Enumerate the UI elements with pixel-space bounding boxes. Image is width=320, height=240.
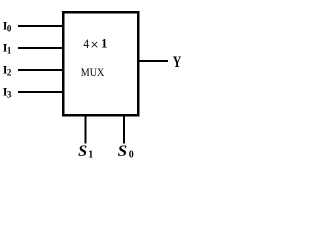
svg-text:MUX: MUX <box>81 65 105 79</box>
svg-text:×: × <box>90 37 98 53</box>
label 4 x 1 <box>83 36 107 53</box>
wire input I1 <box>18 47 63 49</box>
svg-text:S: S <box>118 143 128 160</box>
label I3 <box>3 84 12 99</box>
svg-text:0: 0 <box>129 149 134 160</box>
svg-text:1: 1 <box>7 46 12 56</box>
wire select S0 <box>123 115 125 144</box>
svg-text:2: 2 <box>7 68 12 78</box>
label I2 <box>3 62 12 77</box>
wire input I0 <box>18 25 63 27</box>
label I1 <box>3 40 12 55</box>
wire input I2 <box>18 69 63 71</box>
svg-text:3: 3 <box>7 90 12 100</box>
svg-text:Y: Y <box>173 54 182 71</box>
svg-text:0: 0 <box>7 24 12 34</box>
svg-text:S: S <box>78 143 87 160</box>
svg-text:1: 1 <box>88 149 93 160</box>
wire input I3 <box>18 91 63 93</box>
label S1 <box>78 143 93 161</box>
MUX block U1 <box>63 12 138 115</box>
wire output Y <box>138 60 168 62</box>
svg-text:4: 4 <box>83 36 89 51</box>
wire select S1 <box>85 115 87 144</box>
label S0 <box>118 143 134 161</box>
label I0 <box>3 18 12 33</box>
svg-text:1: 1 <box>101 37 107 51</box>
